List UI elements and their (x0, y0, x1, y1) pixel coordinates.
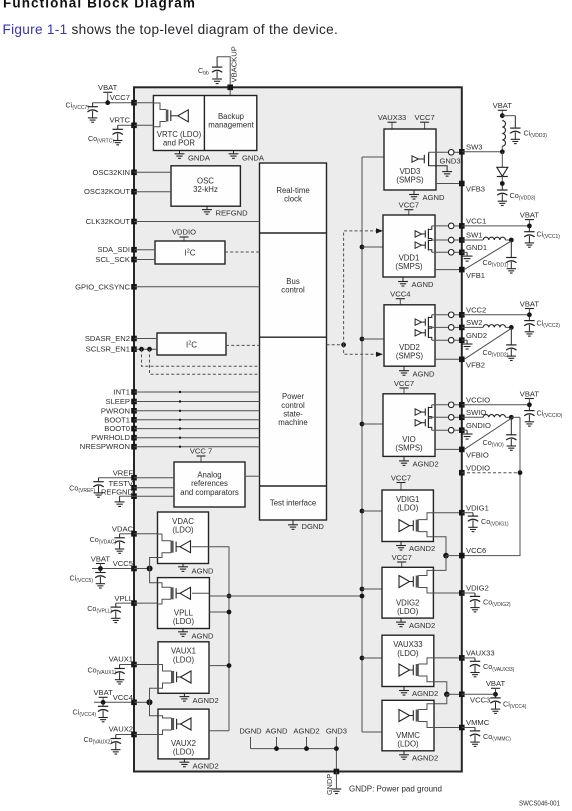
svg-text:Co(VAUX1): Co(VAUX1) (87, 665, 116, 676)
svg-text:Ci(VCCIO): Ci(VCCIO) (537, 408, 563, 419)
svg-text:NRESPWRON: NRESPWRON (80, 442, 130, 451)
svg-text:(LDO): (LDO) (397, 649, 419, 658)
svg-text:VDAC: VDAC (112, 525, 134, 534)
svg-text:PWRHOLD: PWRHOLD (91, 433, 130, 442)
svg-text:VCC6: VCC6 (466, 546, 486, 555)
svg-text:VDDIO: VDDIO (466, 463, 490, 472)
svg-text:GNDIO: GNDIO (466, 421, 491, 430)
svg-text:AGND: AGND (423, 193, 445, 202)
svg-text:I2C: I2C (184, 249, 195, 258)
svg-text:TESTV: TESTV (109, 479, 134, 488)
svg-text:VDIG2: VDIG2 (466, 584, 489, 593)
svg-text:VCC 7: VCC 7 (190, 446, 212, 455)
svg-text:DGND: DGND (302, 522, 325, 531)
svg-text:machine: machine (278, 418, 307, 427)
svg-text:AGND: AGND (266, 727, 288, 736)
svg-text:(SMPS): (SMPS) (396, 175, 424, 184)
svg-text:Functional Block Diagram: Functional Block Diagram (3, 0, 196, 11)
svg-text:VCC1: VCC1 (466, 217, 486, 226)
svg-text:VAUX2: VAUX2 (109, 724, 133, 733)
svg-text:VCC7: VCC7 (391, 473, 411, 482)
svg-text:BOOT0: BOOT0 (104, 424, 130, 433)
svg-text:VAUX1: VAUX1 (109, 655, 133, 664)
svg-text:AGND: AGND (412, 280, 434, 289)
svg-text:GPIO_CKSYNC: GPIO_CKSYNC (75, 282, 130, 291)
svg-text:GNDA: GNDA (188, 154, 211, 163)
svg-text:VCC7: VCC7 (399, 201, 419, 210)
svg-text:VCC2: VCC2 (466, 305, 486, 314)
svg-text:VCC7: VCC7 (110, 93, 130, 102)
svg-text:VBAT: VBAT (98, 83, 118, 92)
svg-text:VBAT: VBAT (520, 389, 540, 398)
svg-text:(LDO): (LDO) (172, 526, 194, 535)
svg-text:Co(VIO): Co(VIO) (483, 438, 504, 449)
svg-text:VBAT: VBAT (91, 554, 111, 563)
svg-text:Co(VDAC): Co(VDAC) (90, 535, 117, 546)
svg-text:AGND2: AGND2 (413, 460, 439, 469)
svg-text:32-kHz: 32-kHz (193, 185, 218, 194)
svg-text:VCC3: VCC3 (470, 696, 490, 705)
svg-text:VBAT: VBAT (493, 101, 513, 110)
svg-text:BOOT1: BOOT1 (104, 415, 130, 424)
svg-text:AGND2: AGND2 (193, 696, 219, 705)
svg-text:GND2: GND2 (466, 331, 487, 340)
svg-text:SCLSR_EN1: SCLSR_EN1 (86, 345, 130, 354)
svg-text:AGND2: AGND2 (293, 727, 319, 736)
svg-text:(LDO): (LDO) (173, 655, 195, 664)
svg-text:VFBIO: VFBIO (466, 451, 489, 460)
svg-text:GNDP: Power pad ground: GNDP: Power pad ground (349, 785, 442, 794)
svg-text:Co(VRTC): Co(VRTC) (88, 134, 114, 145)
svg-text:VRTC: VRTC (109, 116, 130, 125)
svg-text:AGND: AGND (192, 566, 214, 575)
svg-text:GND1: GND1 (466, 243, 487, 252)
svg-text:(LDO): (LDO) (173, 617, 195, 626)
svg-text:AGND2: AGND2 (412, 754, 438, 763)
svg-text:VDAC: VDAC (172, 517, 194, 526)
svg-text:clock: clock (284, 194, 302, 203)
svg-text:VCC7: VCC7 (394, 379, 414, 388)
svg-text:SW3: SW3 (466, 142, 482, 151)
svg-text:OSC32KIN: OSC32KIN (92, 168, 130, 177)
svg-text:VAUX1: VAUX1 (171, 647, 196, 656)
svg-text:GND3: GND3 (326, 727, 347, 736)
svg-text:VAUX33: VAUX33 (466, 649, 495, 658)
svg-text:Ci(VCC7): Ci(VCC7) (66, 101, 90, 112)
svg-text:VBAT: VBAT (486, 679, 506, 688)
svg-text:VREF: VREF (113, 468, 134, 477)
svg-text:SDA_SDI: SDA_SDI (98, 245, 131, 254)
svg-text:control: control (281, 285, 305, 294)
svg-text:SW2: SW2 (466, 318, 482, 327)
svg-text:Co(VDD3): Co(VDD3) (510, 191, 536, 202)
svg-text:VFB2: VFB2 (466, 361, 485, 370)
svg-text:Co(VAUX33): Co(VAUX33) (483, 662, 515, 673)
svg-text:Test interface: Test interface (270, 499, 316, 508)
svg-text:SW1: SW1 (466, 231, 482, 240)
svg-text:AGND: AGND (192, 631, 214, 640)
svg-text:VCC4: VCC4 (390, 290, 410, 299)
svg-text:VAUX33: VAUX33 (378, 113, 407, 122)
svg-text:SWIO: SWIO (466, 408, 486, 417)
svg-text:and comparators: and comparators (180, 488, 239, 497)
svg-text:VDIG1: VDIG1 (466, 503, 489, 512)
svg-text:GNDP: GNDP (325, 774, 334, 795)
svg-text:Co(VDD1): Co(VDD1) (483, 258, 509, 269)
svg-text:(LDO): (LDO) (397, 607, 419, 616)
svg-text:CLK32KOUT: CLK32KOUT (86, 217, 131, 226)
svg-text:VBAT: VBAT (93, 688, 113, 697)
svg-text:Co(VDD2): Co(VDD2) (483, 348, 509, 359)
svg-text:Co(VREF): Co(VREF) (69, 484, 95, 495)
svg-text:GNDA: GNDA (242, 154, 265, 163)
svg-text:SWCS046-001: SWCS046-001 (519, 800, 560, 807)
svg-text:AGND2: AGND2 (409, 544, 435, 553)
svg-text:AGND2: AGND2 (412, 689, 438, 698)
svg-text:VDDIO: VDDIO (172, 228, 196, 237)
svg-text:AGND2: AGND2 (193, 762, 219, 771)
svg-text:Ci(VCC1): Ci(VCC1) (537, 229, 561, 240)
svg-text:SDASR_EN2: SDASR_EN2 (85, 334, 130, 343)
svg-text:INT1: INT1 (114, 388, 130, 397)
svg-text:VBACKUP: VBACKUP (230, 46, 239, 82)
svg-text:Co(VAUX2): Co(VAUX2) (83, 735, 112, 746)
svg-text:VFB1: VFB1 (466, 271, 485, 280)
svg-text:AGND: AGND (413, 369, 435, 378)
svg-text:VAUX33: VAUX33 (393, 640, 422, 649)
svg-text:SCL_SCK: SCL_SCK (95, 255, 130, 264)
svg-text:DGND: DGND (239, 727, 262, 736)
svg-text:(LDO): (LDO) (397, 504, 419, 513)
svg-text:Ci(VCC5): Ci(VCC5) (70, 574, 94, 585)
svg-text:Co(VPLL): Co(VPLL) (87, 604, 112, 615)
svg-text:VCC5: VCC5 (113, 559, 133, 568)
svg-text:Figure 1-1 shows the top-level: Figure 1-1 shows the top-level diagram o… (3, 22, 339, 37)
svg-text:REFGND: REFGND (216, 208, 249, 217)
svg-text:OSC32KOUT: OSC32KOUT (84, 187, 130, 196)
svg-text:Ci(VCC4): Ci(VCC4) (73, 708, 97, 719)
svg-text:GND3: GND3 (440, 157, 461, 166)
svg-text:Ci(VDD3): Ci(VDD3) (524, 128, 548, 139)
svg-text:VCC7: VCC7 (414, 113, 434, 122)
svg-text:Co(VDIG2): Co(VDIG2) (483, 597, 511, 608)
svg-text:Co(VDIG1): Co(VDIG1) (481, 517, 509, 528)
svg-text:VMMC: VMMC (466, 718, 490, 727)
svg-text:and POR: and POR (163, 138, 195, 147)
svg-text:VBAT: VBAT (520, 210, 540, 219)
svg-text:(SMPS): (SMPS) (395, 262, 423, 271)
svg-text:(SMPS): (SMPS) (396, 351, 424, 360)
svg-text:references: references (191, 479, 228, 488)
svg-text:VCCIO: VCCIO (466, 395, 490, 404)
svg-text:VFB3: VFB3 (466, 185, 485, 194)
svg-text:AGND2: AGND2 (409, 621, 435, 630)
svg-text:VCC4: VCC4 (113, 693, 133, 702)
svg-text:(SMPS): (SMPS) (395, 443, 423, 452)
svg-text:(LDO): (LDO) (173, 748, 195, 757)
svg-text:I2C: I2C (186, 340, 197, 349)
svg-text:REFGND: REFGND (101, 488, 134, 497)
svg-text:PWRON: PWRON (101, 406, 130, 415)
svg-text:VCC7: VCC7 (392, 553, 412, 562)
svg-text:SLEEP: SLEEP (106, 397, 130, 406)
svg-text:VPLL: VPLL (114, 594, 133, 603)
svg-text:Co(VMMC): Co(VMMC) (483, 732, 511, 743)
svg-text:Ci(VCC2): Ci(VCC2) (537, 318, 561, 329)
svg-text:Ci(VCC4): Ci(VCC4) (503, 699, 527, 710)
svg-text:VBAT: VBAT (520, 299, 540, 308)
svg-text:VDIG1: VDIG1 (396, 495, 419, 504)
svg-text:(LDO): (LDO) (397, 739, 419, 748)
svg-text:management: management (208, 121, 254, 130)
svg-text:Cbb: Cbb (198, 66, 209, 77)
